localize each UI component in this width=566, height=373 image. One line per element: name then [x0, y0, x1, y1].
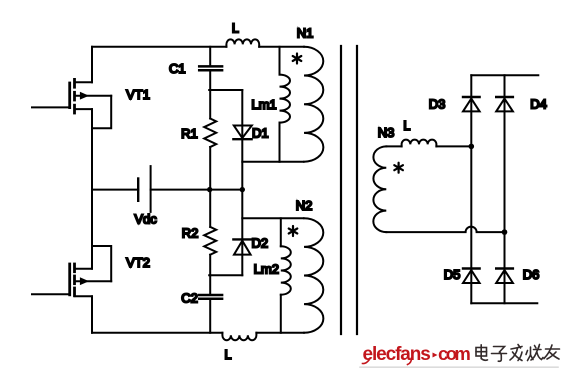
wire: top rail right segment [259, 46, 304, 48]
svg-text:N3: N3 [378, 125, 395, 140]
wire: VT2 gate lead [32, 293, 70, 295]
diode D3 [463, 97, 480, 111]
wire: left rail VT1 source down to VT2 [91, 109, 93, 269]
transistor VT2 [70, 246, 112, 296]
svg-text:Vdc: Vdc [134, 212, 157, 227]
inductor Lm2 [281, 218, 291, 332]
polarity mark N2 [289, 226, 298, 236]
logo chinese characters [476, 345, 560, 362]
svg-text:elecfans: elecfans [363, 344, 431, 365]
svg-text:C1: C1 [169, 61, 186, 76]
svg-text:D3: D3 [429, 97, 446, 112]
resistor R2 [204, 190, 216, 276]
transformer core bar left [340, 46, 342, 334]
svg-text:R1: R1 [181, 126, 198, 141]
wire: N3 bottom lead with hop [386, 227, 504, 233]
node: junction dot R1/R2 [207, 187, 212, 192]
svg-text:Lm1: Lm1 [251, 97, 276, 112]
winding N1 [304, 47, 323, 162]
wire: VT2 source down to bottom rail [91, 296, 93, 333]
diode D4 [496, 97, 513, 111]
transformer core bar right [356, 46, 358, 334]
polarity mark N3 [394, 163, 403, 173]
inductor L (top) [226, 39, 259, 46]
node: junction dot bridge left [469, 144, 475, 150]
svg-text:N2: N2 [296, 198, 313, 213]
capacitor C1 [199, 47, 222, 90]
wire: N3 top lead [386, 145, 401, 147]
winding N2 [304, 218, 323, 333]
capacitor C2 [199, 275, 222, 333]
wire: VT1 gate lead [32, 106, 70, 108]
svg-text:D4: D4 [530, 97, 547, 112]
svg-text:com: com [438, 343, 470, 364]
wire: bottom rail right segment [256, 332, 304, 334]
wire: R2/D2 bottoms joining C2 top [209, 274, 242, 276]
wire: output bottom rail [471, 302, 537, 304]
inductor L (bottom) [222, 333, 256, 340]
wire: N2 top connection [242, 217, 303, 219]
svg-text:L: L [225, 348, 232, 362]
svg-text:D5: D5 [444, 267, 461, 282]
inductor Lm1 [280, 47, 291, 162]
svg-text:Lm2: Lm2 [254, 261, 279, 276]
inductor L (secondary) [402, 140, 437, 147]
diode D5 [463, 269, 480, 284]
wire: bridge left column [470, 75, 472, 303]
svg-text:L: L [232, 22, 239, 36]
wire: N1 bottom connection [242, 161, 303, 163]
resistor R1 [204, 90, 216, 190]
wire: output top rail [471, 74, 538, 76]
svg-text:VT2: VT2 [126, 255, 150, 270]
polarity mark N1 [293, 54, 302, 64]
wire: secondary L to bridge left column [436, 145, 471, 147]
svg-text:C2: C2 [181, 291, 198, 306]
svg-text:N1: N1 [297, 25, 314, 40]
diode D6 [496, 269, 513, 284]
node: junction dot D1/D2 [240, 187, 245, 192]
svg-text:D2: D2 [252, 236, 269, 251]
svg-text:D1: D1 [252, 125, 269, 140]
wire: bottom rail left segment [92, 332, 222, 334]
svg-text:VT1: VT1 [126, 87, 150, 102]
svg-text:L: L [403, 119, 410, 133]
logo elecfans.com [363, 360, 370, 364]
wire: top rail left segment [92, 46, 226, 48]
node: junction dot bridge right [502, 229, 508, 235]
wire: C1 bottom joining R1/D1 tops [209, 89, 242, 91]
wire: VT1 drain up to top rail [91, 47, 93, 83]
svg-text:D6: D6 [523, 267, 540, 282]
diode D2 [233, 190, 251, 276]
battery Vdc [92, 166, 242, 212]
wire: bridge right column [504, 75, 506, 303]
logo underline swoosh [360, 366, 558, 368]
diode D1 [233, 90, 251, 190]
svg-text:R2: R2 [182, 226, 199, 241]
winding N3 [373, 146, 386, 232]
transistor VT1 [70, 79, 112, 128]
